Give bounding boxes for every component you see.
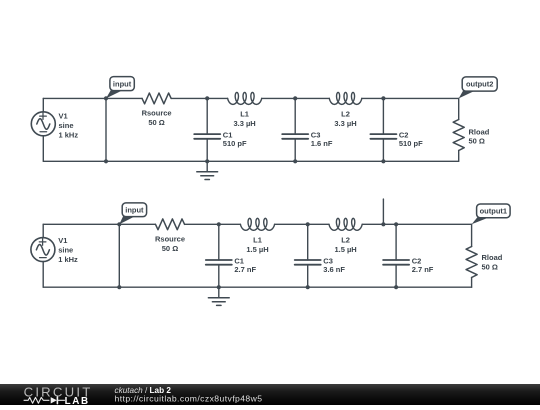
label Rsource 50 Ohm (bottom circuit)	[155, 235, 185, 253]
wire input vertical (top circuit)	[105, 98, 107, 161]
svg-text:1.6 nF: 1.6 nF	[311, 139, 333, 148]
capacitor C1 (bottom circuit)	[206, 224, 232, 287]
capacitor C3 (top circuit)	[282, 98, 308, 161]
svg-text:50 Ω: 50 Ω	[162, 244, 178, 253]
svg-text:LAB: LAB	[65, 396, 90, 405]
svg-text:L1: L1	[240, 110, 249, 119]
label C1 510 pF (top circuit)	[223, 130, 247, 148]
svg-text:1 kHz: 1 kHz	[58, 255, 78, 264]
svg-text:L1: L1	[253, 235, 262, 244]
svg-text:1 kHz: 1 kHz	[59, 130, 79, 139]
svg-text:50 Ω: 50 Ω	[148, 118, 164, 127]
svg-text:output2: output2	[466, 80, 494, 89]
node C3 bottom junction (bottom circuit)	[306, 285, 310, 289]
node C1 top junction (bottom circuit)	[217, 222, 221, 226]
svg-text:L2: L2	[341, 235, 350, 244]
svg-text:output1: output1	[480, 207, 508, 216]
svg-text:Rload: Rload	[482, 253, 503, 262]
label L2 3.3 uH (top circuit)	[334, 110, 356, 128]
svg-text:Rload: Rload	[469, 127, 490, 136]
svg-text:3.3 µH: 3.3 µH	[334, 119, 356, 128]
resistor Rsource (top circuit)	[142, 93, 171, 104]
node stub junction (bottom circuit)	[381, 222, 385, 226]
node C3 bottom junction (top circuit)	[293, 159, 297, 163]
flag input (top circuit)	[106, 77, 134, 99]
node C1 bottom junction (top circuit)	[205, 159, 209, 163]
wire top rail segment 2 (top circuit)	[171, 97, 227, 99]
resistor Rsource (bottom circuit)	[155, 219, 184, 230]
capacitor C1 (top circuit)	[194, 98, 220, 161]
flag input (bottom circuit)	[119, 203, 146, 224]
label V1 sine 1 kHz (bottom circuit)	[58, 236, 78, 264]
wire top rail segment 1 (bottom circuit)	[43, 223, 155, 225]
label Rload 50 Ohm (bottom circuit)	[482, 253, 503, 271]
resistor Rload (bottom circuit)	[466, 247, 477, 278]
label C2 2.7 nF (bottom circuit)	[412, 256, 434, 274]
flag output2 (top circuit)	[459, 77, 498, 99]
svg-text:L2: L2	[341, 110, 350, 119]
label C3 1.6 nF (top circuit)	[311, 130, 333, 148]
wire input vertical (bottom circuit)	[118, 224, 120, 287]
inductor L1 (top circuit)	[228, 92, 262, 104]
svg-text:50 Ω: 50 Ω	[469, 137, 485, 146]
wire left rail upper segment (top circuit)	[42, 98, 44, 111]
svg-text:V1: V1	[59, 111, 68, 120]
label L2 1.5 uH (bottom circuit)	[334, 235, 356, 253]
voltage source V1 (bottom circuit)	[31, 238, 55, 262]
wire right rail lower (bottom circuit)	[471, 278, 473, 288]
svg-text:3.3 µH: 3.3 µH	[233, 119, 255, 128]
svg-text:1.5 µH: 1.5 µH	[246, 245, 268, 254]
node C2 top junction (top circuit)	[381, 96, 385, 100]
wire top rail segment 2 (bottom circuit)	[185, 223, 241, 225]
node C2 bottom junction (top circuit)	[381, 159, 385, 163]
svg-text:sine: sine	[59, 121, 74, 130]
svg-text:input: input	[125, 205, 144, 214]
CircuitLab logo diode	[51, 397, 65, 404]
voltage source V1 (top circuit)	[31, 112, 55, 136]
svg-text:510 pF: 510 pF	[223, 139, 247, 148]
wire top rail segment 1 (top circuit)	[43, 97, 142, 99]
ground (bottom circuit)	[208, 287, 229, 305]
wire left rail lower segment (bottom circuit)	[42, 262, 44, 288]
wire stub dangling (bottom circuit)	[382, 199, 384, 224]
node input junction bottom (bottom circuit)	[117, 285, 121, 289]
label C2 510 pF (top circuit)	[399, 130, 423, 148]
svg-text:Rsource: Rsource	[155, 235, 185, 244]
node C2 bottom junction (bottom circuit)	[394, 285, 398, 289]
label L1 3.3 uH (top circuit)	[233, 110, 255, 128]
wire top rail segment 3 (top circuit)	[262, 97, 330, 99]
flag output1 (bottom circuit)	[472, 204, 511, 224]
svg-text:2.7 nF: 2.7 nF	[234, 265, 256, 274]
svg-text:sine: sine	[58, 245, 73, 254]
label Rload 50 Ohm (top circuit)	[469, 127, 490, 145]
svg-text:Rsource: Rsource	[142, 109, 172, 118]
wire right rail upper (top circuit)	[458, 98, 460, 119]
wire top rail segment 4 (top circuit)	[362, 97, 459, 99]
node C3 top junction (top circuit)	[293, 96, 297, 100]
wire right rail lower (top circuit)	[458, 151, 460, 162]
label Rsource 50 Ohm (top circuit)	[142, 109, 172, 127]
svg-text:1.5 µH: 1.5 µH	[334, 245, 356, 254]
wire right rail upper (bottom circuit)	[471, 224, 473, 246]
svg-text:2.7 nF: 2.7 nF	[412, 265, 434, 274]
capacitor C2 (top circuit)	[370, 98, 396, 161]
label V1 sine 1 kHz (top circuit)	[59, 111, 79, 139]
node C3 top junction (bottom circuit)	[306, 222, 310, 226]
CircuitLab logo resistor zigzag	[24, 397, 49, 403]
node C1 top junction (top circuit)	[205, 96, 209, 100]
svg-text:50 Ω: 50 Ω	[482, 263, 498, 272]
wire top rail segment 3 (bottom circuit)	[275, 223, 329, 225]
resistor Rload (top circuit)	[453, 120, 464, 151]
wire bottom rail (top circuit)	[43, 160, 458, 162]
svg-text:510 pF: 510 pF	[399, 139, 423, 148]
wire left rail lower segment (top circuit)	[42, 136, 44, 162]
inductor L2 (bottom circuit)	[329, 218, 362, 230]
wire top rail segment 4 (bottom circuit)	[362, 223, 471, 225]
wire left rail upper segment (bottom circuit)	[42, 224, 44, 237]
footer bar	[0, 384, 540, 405]
wire bottom rail (bottom circuit)	[43, 286, 471, 288]
label L1 1.5 uH (bottom circuit)	[246, 235, 268, 253]
capacitor C2 (bottom circuit)	[383, 224, 409, 287]
node input junction top (top circuit)	[104, 96, 108, 100]
node C1 bottom junction (bottom circuit)	[217, 285, 221, 289]
label C1 2.7 nF (bottom circuit)	[234, 256, 256, 274]
node input junction bottom (top circuit)	[104, 159, 108, 163]
node input junction top (bottom circuit)	[117, 222, 121, 226]
svg-text:input: input	[113, 79, 132, 88]
inductor L1 (bottom circuit)	[240, 218, 274, 230]
svg-text:V1: V1	[58, 236, 67, 245]
label C3 3.6 nF (bottom circuit)	[323, 256, 345, 274]
ground (top circuit)	[197, 161, 218, 179]
svg-text:http://circuitlab.com/czx8utvf: http://circuitlab.com/czx8utvfp48w5	[115, 394, 263, 404]
capacitor C3 (bottom circuit)	[295, 224, 321, 287]
svg-text:3.6 nF: 3.6 nF	[323, 265, 345, 274]
inductor L2 (top circuit)	[329, 92, 362, 104]
node C2 top junction (bottom circuit)	[394, 222, 398, 226]
